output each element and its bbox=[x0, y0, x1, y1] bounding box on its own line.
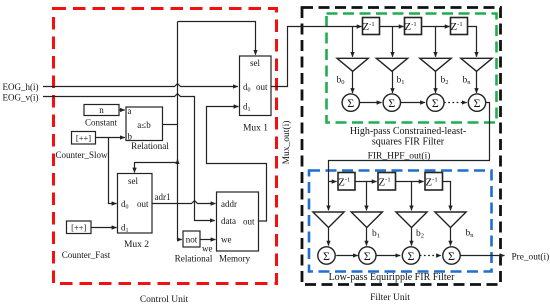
svg-text:Relational: Relational bbox=[175, 254, 213, 264]
wire multiplier b1 to sum 2 bbox=[392, 71, 394, 93]
wire constant n to relational a bbox=[119, 109, 125, 111]
hpf multiplier b2 triangle bbox=[420, 58, 451, 71]
svg-text:[++]: [++] bbox=[76, 133, 91, 143]
hpf sum 1 bbox=[342, 94, 359, 111]
svg-text:EOG_h(i): EOG_h(i) bbox=[3, 82, 39, 92]
lpf sum 1 bbox=[318, 247, 335, 264]
svg-text:bn: bn bbox=[463, 76, 472, 87]
wire lpf delay1 to delay2 bbox=[355, 181, 377, 183]
lpf multiplier bn triangle bbox=[435, 212, 466, 228]
svg-text:b2: b2 bbox=[416, 229, 424, 240]
svg-text:Z-1: Z-1 bbox=[338, 176, 350, 188]
svg-text:b2: b2 bbox=[441, 76, 449, 87]
svg-text:out: out bbox=[256, 82, 268, 92]
wire lpf sum1 to sum2 bbox=[336, 255, 358, 257]
wire lpf tap 1 bbox=[366, 182, 368, 211]
svg-text:sel: sel bbox=[128, 176, 138, 186]
wire riser trunk to not block bbox=[178, 22, 182, 240]
Mux 1 block bbox=[240, 56, 272, 116]
wire FIR_HPF_out to low-pass input bbox=[329, 103, 490, 211]
svg-text:a≤b: a≤b bbox=[137, 120, 151, 130]
lpf multiplier 1 triangle bbox=[313, 212, 344, 228]
hpf sum 4 bbox=[468, 94, 485, 111]
svg-text:squares FIR Filter: squares FIR Filter bbox=[372, 137, 445, 148]
svg-text:Σ: Σ bbox=[347, 96, 354, 110]
wire sum1 to sum2 bbox=[360, 102, 382, 104]
svg-text:EOG_v(i): EOG_v(i) bbox=[3, 93, 39, 103]
svg-text:we: we bbox=[202, 244, 213, 254]
wire lpf delay2 to delay3 bbox=[396, 181, 424, 183]
wire multiplier b0 to sum 1 bbox=[352, 71, 354, 93]
svg-text:Mux 1: Mux 1 bbox=[243, 124, 268, 134]
hpf delay Z3 bbox=[451, 18, 468, 35]
wire riser to Mux1 sel bbox=[178, 22, 256, 55]
svg-text:Relational: Relational bbox=[131, 141, 169, 151]
hpf multiplier b1 triangle bbox=[376, 58, 407, 71]
wire counter_slow to relational b bbox=[96, 137, 125, 139]
wire tap 2 to multiplier b2 bbox=[435, 27, 437, 57]
svg-text:b1: b1 bbox=[372, 229, 380, 240]
svg-text:d0: d0 bbox=[243, 82, 251, 94]
junction arrow on riser bbox=[177, 159, 179, 162]
control unit boundary (red dashed box) bbox=[54, 9, 277, 284]
svg-text:Σ: Σ bbox=[364, 249, 371, 263]
svg-text:Σ: Σ bbox=[448, 249, 455, 263]
high-pass filter boundary (green dashed box) bbox=[327, 14, 497, 123]
wire Pre_out output bbox=[460, 255, 504, 257]
svg-text:n: n bbox=[99, 105, 104, 115]
svg-text:Σ: Σ bbox=[323, 249, 330, 263]
svg-text:Σ: Σ bbox=[408, 249, 415, 263]
svg-text:out: out bbox=[137, 199, 149, 209]
svg-text:Filter Unit: Filter Unit bbox=[370, 293, 410, 303]
wire relational output to riser bbox=[163, 124, 178, 126]
wire sum3 to sum4 (dotted) bbox=[444, 102, 467, 104]
svg-text:Low-pass Equiripple FIR Filter: Low-pass Equiripple FIR Filter bbox=[329, 272, 455, 283]
svg-text:Constant: Constant bbox=[85, 118, 118, 128]
lpf multiplier b2 triangle bbox=[396, 212, 427, 228]
svg-text:b0: b0 bbox=[337, 76, 345, 87]
svg-text:FIR_HPF_out(i): FIR_HPF_out(i) bbox=[368, 151, 431, 162]
svg-text:b1: b1 bbox=[397, 76, 405, 87]
svg-text:addr: addr bbox=[221, 199, 237, 209]
wire low-pass input branch to delay1 bbox=[329, 181, 337, 183]
svg-text:Counter_Slow: Counter_Slow bbox=[55, 150, 108, 160]
wire multiplier b2 to sum 3 bbox=[435, 71, 437, 93]
lpf sum 3 bbox=[402, 247, 419, 264]
svg-text:Z-1: Z-1 bbox=[425, 176, 437, 188]
wire lpf multiplier b2 to sum 3 bbox=[411, 228, 413, 246]
svg-text:b: b bbox=[128, 132, 133, 142]
svg-text:Z-1: Z-1 bbox=[450, 21, 462, 33]
relational block R1 bbox=[126, 107, 163, 141]
svg-text:adr1: adr1 bbox=[155, 192, 171, 202]
svg-text:out: out bbox=[243, 217, 255, 227]
svg-text:[++]: [++] bbox=[71, 222, 86, 232]
svg-text:High-pass Constrained-least-: High-pass Constrained-least- bbox=[350, 126, 466, 137]
wire lpf sum3 to sum4 (dotted) bbox=[420, 255, 441, 257]
wire tap 0 to multiplier b0 bbox=[352, 27, 354, 57]
low-pass filter boundary (blue dashed box) bbox=[309, 171, 492, 272]
wire EOG_h input to Mux1 d0 (hop over riser) bbox=[43, 84, 238, 87]
wire not output to Memory we bbox=[200, 239, 216, 241]
wire lpf multiplier b1 to sum 2 bbox=[366, 228, 368, 246]
svg-text:Z-1: Z-1 bbox=[362, 21, 374, 33]
svg-text:sel: sel bbox=[250, 58, 260, 68]
hpf multiplier b0 triangle bbox=[337, 58, 368, 71]
wire lpf multiplier 1 to sum 1 bbox=[328, 228, 330, 246]
wire lpf sum2 to sum3 bbox=[376, 255, 400, 257]
lpf multiplier b1 triangle bbox=[351, 212, 382, 228]
svg-text:d1: d1 bbox=[243, 102, 251, 114]
svg-text:Mux 2: Mux 2 bbox=[124, 240, 149, 250]
memory block bbox=[217, 192, 259, 251]
wire lpf tap 2 bbox=[411, 182, 413, 211]
counter_fast block bbox=[67, 221, 92, 234]
svg-text:data: data bbox=[221, 216, 236, 226]
hpf sum 2 bbox=[383, 94, 400, 111]
lpf sum 4 bbox=[443, 247, 460, 264]
lpf delay Z3 bbox=[425, 173, 443, 191]
wire adr1 Mux2 out to Memory addr (hop over EOG_v line) bbox=[152, 201, 216, 204]
hpf delay Z2 bbox=[405, 18, 422, 35]
svg-text:a: a bbox=[128, 106, 132, 116]
wire delay2 to delay3 bbox=[422, 26, 450, 28]
svg-text:d0: d0 bbox=[121, 199, 129, 211]
filter unit boundary (black dashed box) bbox=[302, 8, 501, 285]
not block bbox=[183, 231, 200, 247]
wire multiplier bn to sum 4 bbox=[476, 71, 478, 93]
hpf multiplier bn triangle bbox=[461, 58, 492, 71]
svg-text:we: we bbox=[221, 235, 232, 245]
wire tap 1 to multiplier b1 bbox=[392, 27, 394, 57]
hpf sum 3 bbox=[427, 94, 444, 111]
svg-text:bn: bn bbox=[466, 229, 475, 240]
svg-text:Z-1: Z-1 bbox=[404, 21, 416, 33]
wire sum2 to sum3 bbox=[401, 102, 426, 104]
lpf sum 2 bbox=[359, 247, 376, 264]
svg-text:Σ: Σ bbox=[432, 96, 439, 110]
wire riser branch to Mux2 sel bbox=[135, 163, 178, 173]
svg-text:Mux_out(i): Mux_out(i) bbox=[281, 121, 292, 165]
lpf delay Z1 bbox=[338, 173, 355, 191]
svg-text:d1: d1 bbox=[121, 223, 129, 235]
wire lpf multiplier bn to sum 4 bbox=[450, 228, 452, 246]
svg-text:Memory: Memory bbox=[219, 254, 250, 264]
svg-text:Counter_Fast: Counter_Fast bbox=[62, 250, 111, 260]
svg-text:Control Unit: Control Unit bbox=[140, 295, 189, 304]
svg-text:Σ: Σ bbox=[474, 96, 481, 110]
svg-text:Pre_out(i): Pre_out(i) bbox=[512, 251, 550, 262]
Mux 2 block bbox=[118, 174, 153, 234]
wire delay1 to delay2 bbox=[380, 26, 404, 28]
lpf delay Z2 bbox=[378, 173, 396, 191]
svg-text:Z-1: Z-1 bbox=[378, 176, 390, 188]
wire counter_slow branch to Mux2 d0 bbox=[109, 138, 117, 204]
wire Memory out to Mux1 d1 bbox=[207, 107, 267, 222]
wire counter_fast to Mux2 d1 bbox=[91, 227, 117, 229]
hpf delay Z1 bbox=[363, 18, 380, 35]
constant block C1 bbox=[84, 105, 119, 116]
wire lpf tap 3 bbox=[443, 182, 451, 211]
wire Mux1 out to delay line (Mux_out) bbox=[271, 27, 362, 87]
svg-text:not: not bbox=[186, 235, 198, 245]
svg-text:Σ: Σ bbox=[388, 96, 395, 110]
wire tap 3 delay3 out to multiplier bn bbox=[468, 27, 477, 57]
wire EOG_v input to Memory data (hop over riser) bbox=[43, 94, 215, 221]
counter_slow block bbox=[72, 132, 96, 145]
